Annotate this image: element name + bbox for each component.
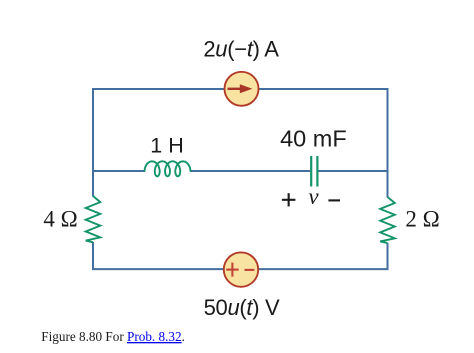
wire right rail lower (resistor bottom to corner) xyxy=(387,243,389,270)
current source I1 arrow xyxy=(228,88,242,90)
wire middle horizontal center segment (inductor to capacitor) xyxy=(190,170,310,172)
svg-text:v: v xyxy=(308,184,319,209)
svg-text:1 H: 1 H xyxy=(150,134,183,158)
capacitor voltage polarity minus sign xyxy=(328,199,340,201)
resistor R2 2 ohm (right, green zigzag) xyxy=(380,197,395,243)
capacitor voltage polarity plus sign xyxy=(282,199,296,201)
wire middle horizontal right segment (capacitor to right rail) xyxy=(319,170,388,172)
capacitor C1 40 mF right plate xyxy=(316,156,318,187)
svg-text:Figure 8.80 For Prob. 8.32.: Figure 8.80 For Prob. 8.32. xyxy=(41,329,185,344)
svg-text:40 mF: 40 mF xyxy=(280,125,347,151)
wire right rail upper (junction to resistor top) xyxy=(387,171,389,198)
wire top from left corner to right corner xyxy=(93,89,388,171)
voltage source V1 minus sign xyxy=(245,269,255,271)
capacitor C1 40 mF left plate xyxy=(310,156,312,187)
wire left rail upper (junction to resistor top) xyxy=(92,171,94,197)
voltage source V1 circle xyxy=(224,252,258,286)
current source I1 circle xyxy=(225,72,259,106)
voltage source V1 plus sign xyxy=(226,269,238,271)
svg-text:2u(−t) A: 2u(−t) A xyxy=(203,37,279,62)
wire bottom from left corner to right corner xyxy=(92,268,388,270)
svg-text:2 Ω: 2 Ω xyxy=(405,207,439,232)
wire middle horizontal left segment xyxy=(93,170,145,172)
svg-text:50u(t) V: 50u(t) V xyxy=(204,295,280,320)
wire left rail lower (resistor bottom to corner) xyxy=(92,242,94,270)
svg-text:4 Ω: 4 Ω xyxy=(43,207,77,232)
inductor L1 1H (green loops on middle wire) xyxy=(145,161,191,176)
resistor R1 4 ohm (left, green zigzag) xyxy=(86,196,101,242)
